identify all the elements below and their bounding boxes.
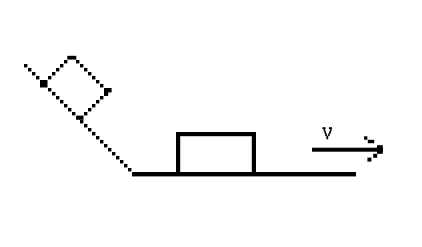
arrowhead tip bar (377, 145, 383, 154)
incline surface (dotted line) (24, 64, 131, 171)
arrowhead upper dotted stroke (364, 136, 374, 143)
block on incline: vertex A marker (handle) (40, 80, 48, 88)
block on incline: edge D-C (dotted) (72, 56, 107, 91)
block on incline: vertex D bar (merged dots at top corner) (67, 56, 76, 60)
ground line (132, 172, 356, 176)
block on ground (rectangle outline) (176, 132, 256, 172)
velocity arrow shaft (312, 148, 383, 152)
block on incline: edge C-B (dotted) (80, 92, 107, 119)
block on incline: vertex B blob (bottom corner) (76, 116, 83, 120)
block on incline: vertex C marker (104, 88, 112, 96)
arrowhead lower dotted stroke (367, 154, 377, 162)
block on incline: edge A-D (dotted) (48, 56, 71, 79)
label V (322, 127, 332, 139)
